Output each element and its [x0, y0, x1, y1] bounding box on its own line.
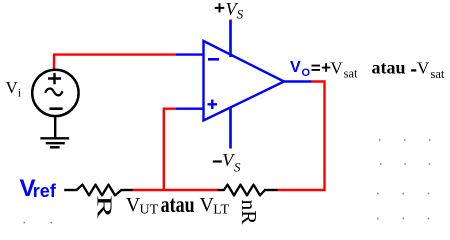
svg-text:V: V [417, 59, 430, 78]
resistor nR zigzag [224, 185, 265, 196]
wire blue: inverting input stub [176, 53, 204, 55]
svg-text:O: O [302, 67, 311, 79]
label +Vs [215, 0, 244, 21]
svg-text:sat: sat [344, 67, 358, 81]
svg-text:V: V [290, 59, 301, 76]
svg-text:LT: LT [213, 203, 229, 218]
wire red: bottom node between R and nR [132, 189, 219, 191]
wire red: Vi top to inverting input [54, 55, 177, 70]
ground [40, 116, 69, 147]
svg-text:S: S [237, 6, 244, 21]
op-amp U1 [204, 41, 285, 121]
svg-text:sat: sat [431, 67, 445, 81]
wire blue: output stub [283, 80, 312, 82]
wire red: junction up to non-inverting input [164, 109, 177, 190]
resistor R zigzag [77, 185, 122, 196]
source minus symbol [50, 107, 63, 110]
wire black: nR to feedback [264, 189, 278, 191]
op-amp minus input symbol [208, 58, 219, 61]
svg-text:S: S [234, 159, 241, 174]
wire blue: +Vs supply line [229, 20, 232, 57]
source plus symbol [48, 73, 61, 84]
svg-text:nR: nR [237, 200, 261, 226]
wire red: output feedback right and down [312, 82, 325, 191]
wire blue: non-inverting input stub [176, 107, 204, 109]
op-amp plus input symbol [208, 100, 218, 110]
svg-text:V: V [330, 59, 343, 78]
label nR (rotated) [237, 200, 261, 226]
label Vo = +Vsat atau -Vsat [290, 58, 445, 82]
source sine symbol [45, 89, 62, 96]
svg-text:atau: atau [372, 58, 406, 78]
svg-text:V: V [6, 78, 19, 97]
wire red: feedback bottom to resistor nR [277, 189, 326, 191]
wire black: Vref to resistor R [64, 189, 77, 191]
svg-text:atau: atau [161, 192, 195, 217]
label VUT atau VLT [126, 192, 230, 218]
label Vref [20, 175, 57, 202]
svg-text:ref: ref [33, 181, 57, 201]
label Vi [6, 78, 22, 100]
svg-text:R: R [92, 195, 115, 219]
wire black: R to node [121, 189, 133, 191]
svg-text:UT: UT [140, 203, 159, 218]
wire blue: -Vs supply line [229, 108, 232, 149]
source Vi circle [32, 70, 78, 116]
grid dots (decorative) [24, 139, 431, 223]
wire black: node to resistor nR [218, 189, 226, 191]
label -Vs [213, 150, 241, 174]
